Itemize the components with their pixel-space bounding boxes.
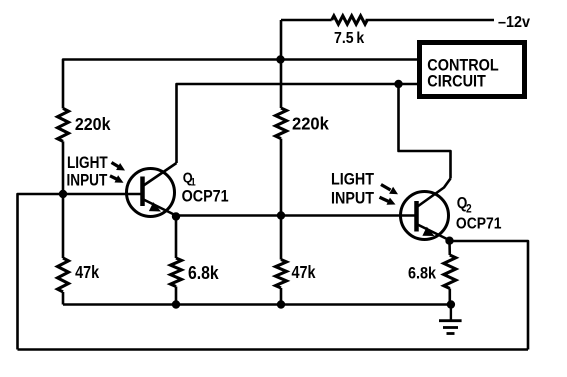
label Q2 xyxy=(456,195,502,232)
wire 47k mid bottom lead xyxy=(280,288,283,305)
label light input Q2 xyxy=(331,171,375,208)
wire 6.8k mid bottom lead xyxy=(175,287,178,305)
wire top rail -12v supply xyxy=(281,19,494,22)
svg-text:47k: 47k xyxy=(292,263,317,283)
resistor 220k left R1 xyxy=(58,108,111,141)
svg-text:CIRCUIT: CIRCUIT xyxy=(427,73,486,91)
node junction base Q1 / divider xyxy=(59,190,67,198)
wire middle 220k to 47k riser xyxy=(280,139,283,260)
wire bottom bus loop xyxy=(18,348,529,351)
light arrows into Q1 xyxy=(110,163,125,183)
node junction top rail / upper control wire xyxy=(276,55,284,63)
wire bottom resistor bus xyxy=(63,303,451,306)
wire 6.8k right bottom lead xyxy=(448,289,451,305)
wire 47k left bottom lead xyxy=(62,292,65,305)
svg-text:LIGHT: LIGHT xyxy=(67,154,108,173)
node junction Q2 emitter xyxy=(445,237,453,245)
wire Q2 emitter to 6.8k right xyxy=(448,241,451,255)
resistor 220k middle R2 xyxy=(276,108,330,139)
wire Q1 emitter to 6.8k xyxy=(175,217,178,259)
node junction mid divider / Q2 base rail xyxy=(277,211,285,219)
wire Q2 emitter to right loop xyxy=(450,241,529,350)
svg-text:7.5 k: 7.5 k xyxy=(334,29,365,47)
svg-text:OCP71: OCP71 xyxy=(456,214,502,232)
ground symbol xyxy=(439,305,462,334)
wire Q1 base rail and left loop xyxy=(18,194,144,350)
svg-text:6.8k: 6.8k xyxy=(188,262,219,284)
svg-text:220k: 220k xyxy=(292,113,329,134)
control circuit box U1 xyxy=(420,43,525,97)
node junction 47k mid bottom xyxy=(277,300,285,308)
wire Q1 emitter rail to Q2 base xyxy=(176,216,417,217)
label light input Q1 xyxy=(67,154,109,190)
wire lower control input from Q1 collector xyxy=(177,84,418,163)
svg-text:220k: 220k xyxy=(75,114,111,134)
light arrows into Q2 xyxy=(380,185,399,205)
node junction control wire / Q2 collector xyxy=(394,80,402,88)
wire upper control input from 220k node xyxy=(63,60,418,109)
svg-text:–12v: –12v xyxy=(498,13,531,31)
resistor 47k middle R5 xyxy=(276,260,317,288)
label Q1 xyxy=(182,168,229,205)
svg-text:6.8k: 6.8k xyxy=(408,265,436,283)
resistor 47k left R3 xyxy=(58,258,100,292)
resistor 6.8k middle R4 xyxy=(171,258,220,286)
node junction Q1 emitter xyxy=(172,212,180,220)
node junction ground xyxy=(447,300,455,308)
resistor 6.8k right R6 xyxy=(408,255,456,288)
wire left 220k bottom to base rail to 47k xyxy=(62,141,65,258)
svg-text:LIGHT: LIGHT xyxy=(331,171,375,189)
svg-text:OCP71: OCP71 xyxy=(182,188,229,206)
svg-text:47k: 47k xyxy=(75,263,100,283)
wire Q2 collector to control circuit xyxy=(399,84,451,179)
svg-text:INPUT: INPUT xyxy=(67,171,108,190)
net label -12v xyxy=(498,13,531,31)
transistor Q2 OCP71 xyxy=(401,179,451,241)
resistor 7.5k xyxy=(332,16,368,47)
wire middle 220k riser xyxy=(280,20,283,108)
transistor Q1 OCP71 xyxy=(127,163,177,217)
node junction 6.8k mid bottom xyxy=(172,300,180,308)
svg-text:INPUT: INPUT xyxy=(331,189,375,207)
